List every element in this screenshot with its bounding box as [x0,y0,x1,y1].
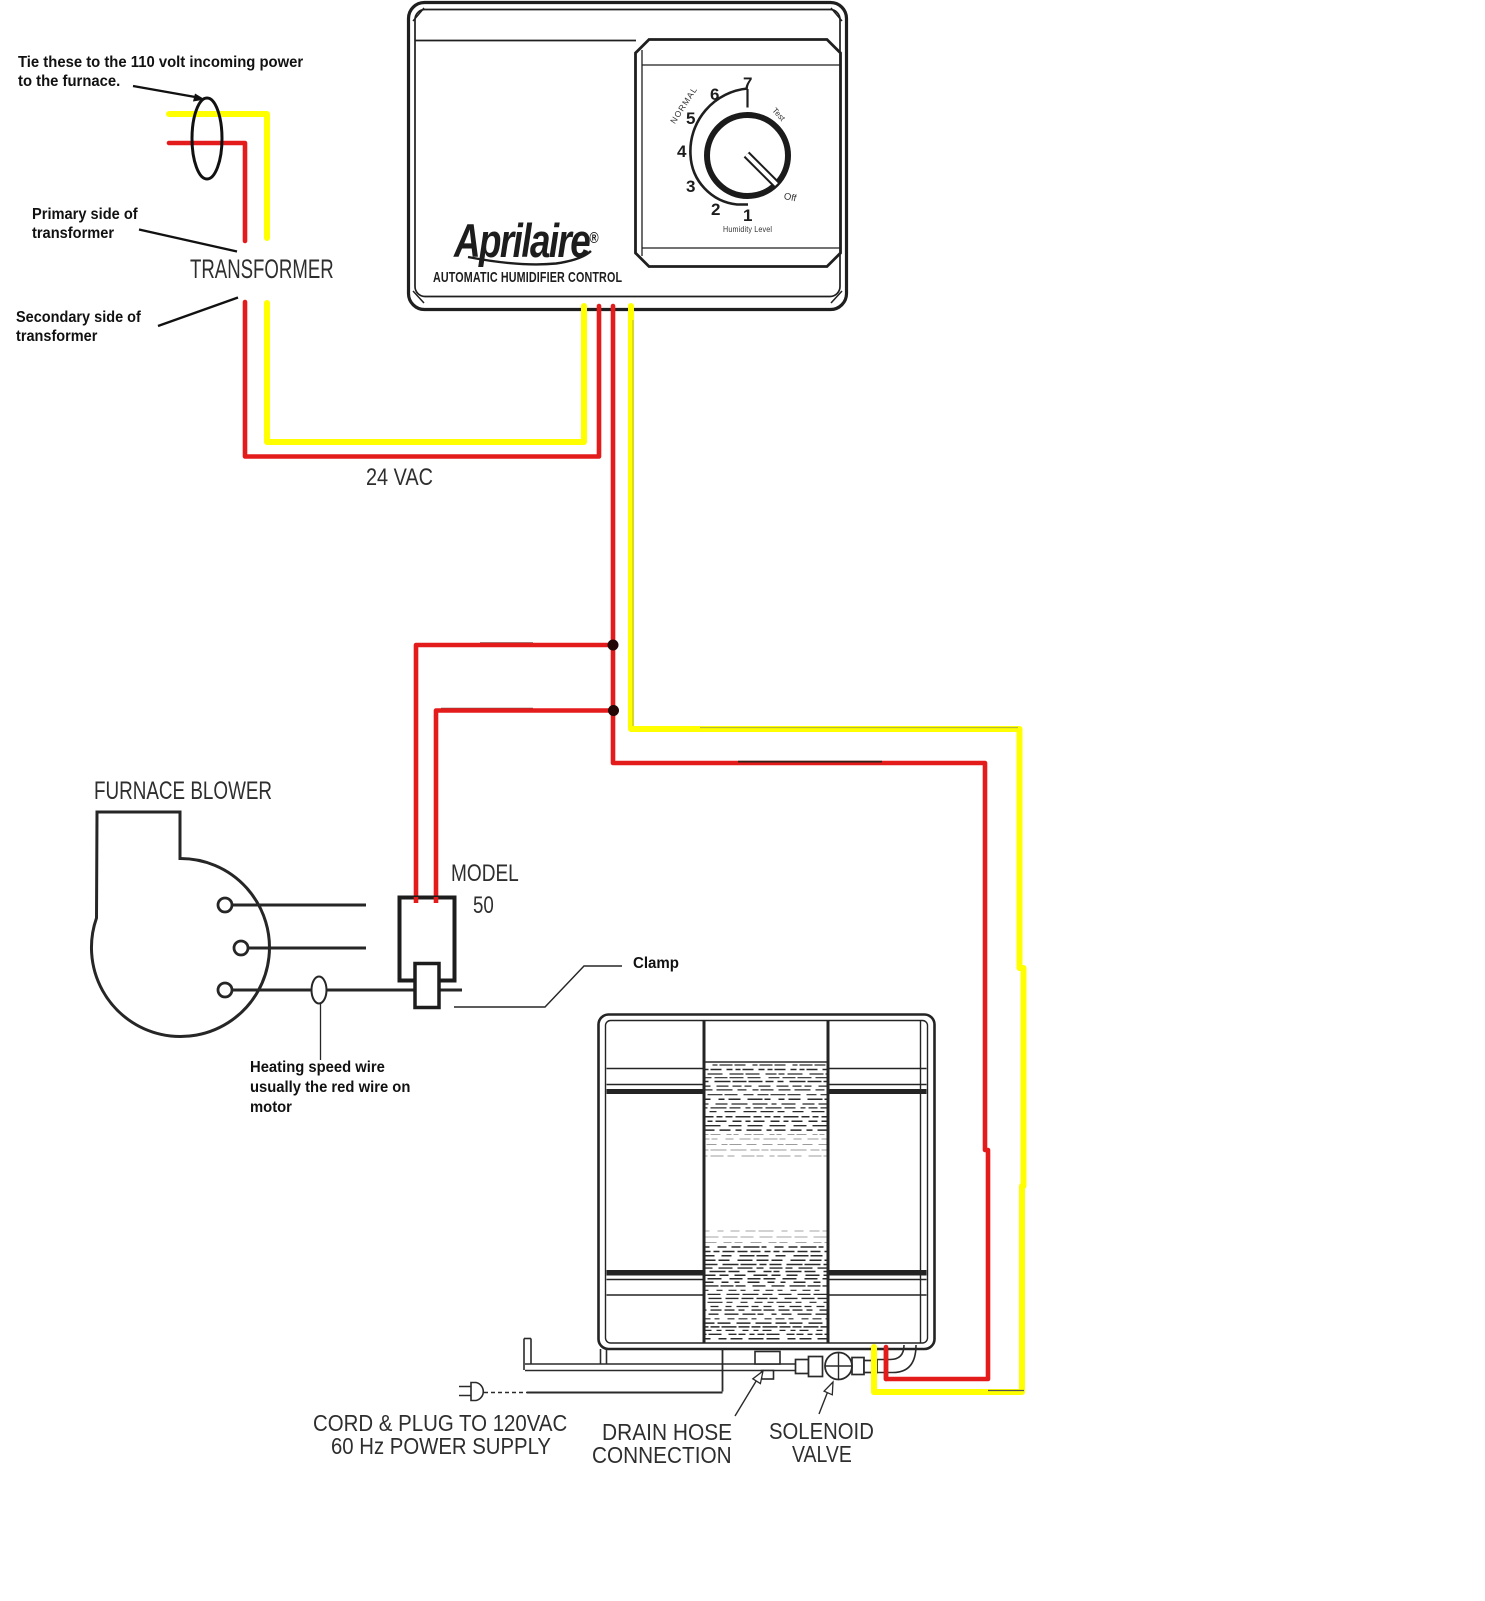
cord entry line [722,1349,724,1392]
arrow to drain hose connection [735,1371,763,1416]
blower terminal 3 [218,983,232,997]
blower terminal 2 [234,941,248,955]
node B junction dot [608,705,619,716]
humidifier cabinet outer [599,1015,935,1350]
label: primary side [32,205,138,243]
wire red node A to model 50 [416,645,613,899]
remnant dark line in yellow vertical [632,320,634,726]
humidifier right column rails [830,1069,927,1296]
label: FURNACE BLOWER [94,777,272,806]
wire yellow stub at valve [871,1347,877,1392]
label: CORD & PLUG [313,1410,567,1437]
dial numbers [743,74,752,94]
wire red into model 50 left [414,897,419,903]
label: MODEL 50 [451,860,519,888]
label: heating speed wire [250,1058,410,1118]
label: SOLENOID VALVE [769,1418,874,1445]
blower lead wire 1 [232,904,366,907]
wire yellow transformer loop (24VAC hot) [169,114,584,442]
aprilaire logo text [454,213,598,268]
solenoid valve assembly [796,1357,878,1377]
clamp box [415,964,439,1008]
furnace blower body [91,812,269,1036]
aprilaire logo swoosh [468,251,591,264]
wire yellow control to solenoid [631,306,1024,1392]
wire red control to nodes and solenoid [613,306,988,1379]
transformer loop ellipse [192,98,222,179]
label: 24 VAC [366,464,433,492]
outlet pipe elbow [877,1345,904,1360]
label: TRANSFORMER [190,254,334,285]
label: DRAIN HOSE CONNECTION [602,1419,732,1446]
humidifier right column inner wall [920,1021,922,1343]
label: secondary side [16,308,141,346]
wire red node B to model 50 [436,711,613,900]
pointer line secondary side [158,298,238,327]
power cord plug [459,1383,723,1401]
solenoid valve body [825,1353,852,1380]
wire red stub at valve [884,1347,889,1379]
wire red transformer primary [169,143,599,457]
heating speed wire to clamp [232,989,462,992]
leader line from heating wire label [320,1004,322,1061]
control box dial panel [636,40,841,267]
humidifier left column rails [607,1069,703,1296]
blower terminal 1 [218,898,232,912]
control box U1 outer case [409,3,847,310]
loop ellipse on heating wire [312,977,327,1004]
dial scale arc [690,89,748,205]
dial humidity level text [723,224,772,234]
humidifier divider right [827,1020,830,1343]
drain hose connection fitting [755,1352,780,1365]
arrow to solenoid valve [819,1382,833,1414]
drain pipe [524,1339,797,1371]
dial Test text [770,106,787,123]
dial Off text [783,191,798,204]
label: Clamp [633,954,679,973]
humidifier divider left [703,1020,706,1343]
humidifier media pad hatching [705,1061,827,1063]
wire red into model 50 right [434,897,439,903]
remnant dark line in yellow wire [988,1390,1024,1392]
label: tie these note [18,53,303,91]
clamp pointer line [454,966,622,1007]
dial knob [707,115,788,196]
model 50 transformer box [400,898,455,981]
blower lead wire 2 [248,947,366,950]
remnant dark marks on wires [480,642,533,644]
pointer line primary side [139,230,237,252]
node A junction dot [608,640,619,651]
arrow to loop [133,86,205,102]
dial NORMAL text [668,84,699,125]
